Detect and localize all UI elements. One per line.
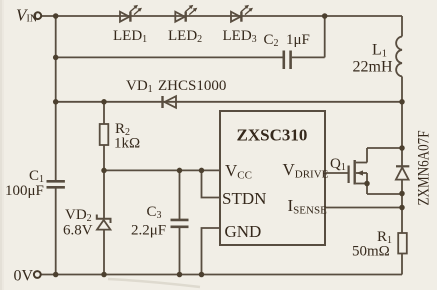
svg-text:50mΩ: 50mΩ xyxy=(352,244,390,260)
svg-text:LED3: LED3 xyxy=(223,28,257,45)
svg-text:LED1: LED1 xyxy=(113,28,147,45)
svg-text:GND: GND xyxy=(225,222,262,241)
svg-text:ZXSC310: ZXSC310 xyxy=(237,126,308,145)
svg-text:IN: IN xyxy=(27,14,38,25)
svg-text:LED2: LED2 xyxy=(168,28,202,45)
svg-text:STDN: STDN xyxy=(222,189,266,208)
svg-text:ZHCS1000: ZHCS1000 xyxy=(158,78,226,94)
svg-text:100μF: 100μF xyxy=(5,183,44,199)
svg-text:22mH: 22mH xyxy=(353,59,393,76)
svg-text:ZXMN6A07F: ZXMN6A07F xyxy=(416,130,433,205)
svg-text:1kΩ: 1kΩ xyxy=(114,136,140,152)
svg-text:1μF: 1μF xyxy=(286,32,310,48)
svg-text:0V: 0V xyxy=(14,268,34,285)
svg-text:2.2μF: 2.2μF xyxy=(131,223,166,239)
svg-text:6.8V: 6.8V xyxy=(63,223,93,239)
